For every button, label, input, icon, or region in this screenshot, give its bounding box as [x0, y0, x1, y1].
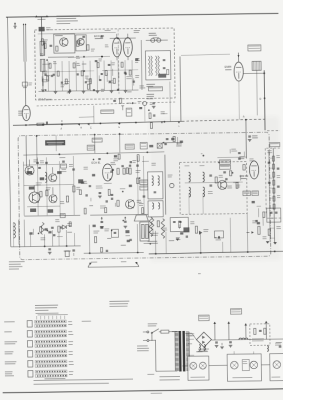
svg-text:E: E	[118, 127, 120, 129]
capacitor C31	[113, 99, 116, 101]
wire transformer top tap	[172, 330, 179, 332]
label box ebf4	[252, 191, 259, 196]
text B250 rectifier	[198, 349, 209, 350]
coil L33	[203, 187, 205, 197]
wire drop 8	[246, 214, 249, 252]
resistor R208	[149, 113, 151, 119]
wire if mid rail	[58, 161, 61, 215]
resistor R175	[263, 212, 265, 218]
resistor R60	[215, 177, 217, 183]
value label text T60	[121, 244, 126, 247]
right column rungs	[269, 157, 273, 159]
resistor R116	[79, 190, 81, 195]
text 5n 2kV	[176, 142, 182, 145]
push button row Langwelle right digits	[69, 360, 74, 363]
wire cluster x138	[136, 156, 139, 214]
resistor R30 volume	[37, 123, 44, 125]
push button row Phono label	[4, 331, 11, 332]
wire drop 12	[222, 242, 224, 253]
transistor Q12	[49, 174, 57, 182]
push button row Automatic contact strip upper	[35, 320, 67, 323]
junction dot J21	[122, 191, 124, 193]
resistor R31	[119, 98, 121, 103]
wire bridge bottom stub	[203, 347, 205, 351]
tube lead stubs ECC85	[116, 34, 118, 38]
wire ebf rail	[217, 156, 246, 159]
svg-text:ECH 81: ECH 81	[91, 161, 101, 165]
component blob B115	[171, 138, 174, 140]
variable capacitor CV1	[151, 38, 155, 42]
capacitor C109	[129, 164, 131, 166]
ground fm column 4	[96, 90, 100, 92]
wire if row214	[24, 214, 80, 217]
push button row Kurzwelle contact strip upper	[35, 340, 67, 343]
output transformer box	[140, 222, 149, 241]
output transformer winding	[141, 224, 144, 238]
label box small	[126, 108, 132, 116]
op-amp U1 tube ECC85a	[112, 38, 121, 57]
push button row Phono switch square	[27, 331, 32, 338]
capacitor C163	[129, 238, 131, 240]
svg-text:FM-Tuner: FM-Tuner	[39, 97, 52, 101]
wire stub W68	[178, 224, 180, 229]
resistor R14	[81, 71, 83, 76]
capacitor C47	[143, 195, 146, 197]
capacitor C33 ground	[248, 135, 251, 137]
text band switch labels	[146, 84, 155, 85]
text cluster row200 a	[93, 230, 99, 233]
wire fm column 8	[96, 61, 98, 91]
capacitor C12	[69, 89, 71, 91]
wire stub W99	[42, 63, 50, 65]
table footnote line b	[34, 383, 109, 385]
text NTC	[150, 233, 158, 234]
wire cluster x144	[142, 156, 145, 214]
ground G5	[176, 238, 180, 240]
coil L1 lower section	[40, 59, 45, 71]
wire stub W34	[114, 203, 116, 207]
transformer primary winding	[175, 331, 178, 333]
resistor R80 zigzag	[41, 222, 45, 234]
wire stub W39	[229, 149, 231, 153]
resistor R223	[44, 43, 46, 48]
text values ebf	[231, 148, 236, 151]
push button row Automatic right digits	[68, 320, 72, 323]
wire stub W117	[41, 76, 43, 81]
antenna down lead	[24, 62, 27, 106]
op-amp U2 tube ECC85b	[123, 38, 132, 57]
capacitor C15	[93, 89, 95, 91]
junction dot J107	[148, 109, 150, 111]
resistor R220	[41, 39, 43, 45]
wire heater top link	[197, 351, 208, 353]
trimmer circle cluster	[143, 101, 147, 105]
resistor R10	[49, 63, 51, 68]
tube heater H2	[199, 362, 206, 369]
wire drop 4	[88, 225, 90, 253]
label box right edge	[270, 143, 280, 147]
ground G7	[266, 241, 270, 243]
wire stub W76	[257, 208, 259, 217]
node D	[264, 97, 266, 99]
component blob B62	[127, 240, 130, 242]
wire stub W88	[112, 69, 114, 76]
tube heater H1	[190, 362, 197, 369]
choke L50	[239, 338, 248, 340]
svg-text:C: C	[90, 127, 92, 129]
wire transformer secondary taps	[189, 338, 194, 340]
node fm1	[83, 56, 85, 58]
push button header ticks	[36, 316, 38, 319]
wire stub W28	[90, 198, 92, 202]
label box ebf1	[219, 160, 230, 165]
ground fm column 1	[54, 91, 58, 93]
label box UKW	[148, 87, 162, 91]
value label text T100	[43, 70, 47, 73]
dark blobs antenna coil top	[39, 27, 45, 32]
capacitor C83	[72, 249, 75, 251]
switch S2 on antenna line	[22, 82, 27, 86]
fuse F1	[161, 330, 169, 333]
dashed box right bottom edge	[267, 217, 281, 219]
wire mains left down	[154, 340, 156, 371]
wire fm column 7	[89, 61, 91, 91]
arrow AM switch	[132, 102, 134, 104]
ground G6	[273, 242, 277, 244]
wire drop 10	[58, 232, 60, 246]
capacitor C91	[229, 341, 232, 343]
capacitor C16	[101, 73, 103, 75]
resistor R70	[230, 171, 232, 176]
wire fm tie y56	[68, 55, 110, 58]
capacitor C45	[72, 168, 75, 170]
text antenna connection note2	[57, 23, 71, 24]
electrolytic box 50u	[170, 217, 188, 231]
NTC zigzag R90	[149, 217, 153, 237]
wire rail D horizontal dashes	[267, 130, 280, 132]
wire stub W119	[42, 79, 44, 86]
capacitor C70	[223, 171, 226, 173]
transistor Q11	[29, 192, 40, 203]
transistor Q10	[25, 166, 34, 175]
capacitor C13	[77, 73, 79, 75]
push button row Ein-Aus UKW label	[5, 371, 13, 372]
dashed vertical right	[264, 148, 267, 213]
transistor Q14	[125, 200, 134, 209]
push button row Ein-Aus UKW switch square	[28, 371, 33, 378]
junction dot J54	[47, 230, 49, 232]
wire x165 vertical	[164, 155, 167, 215]
main bus line	[13, 121, 182, 125]
wire fm column 1	[47, 61, 49, 91]
label box dc2	[231, 309, 242, 315]
push button row Mittelwelle label	[5, 351, 14, 352]
value label text T122	[43, 38, 47, 41]
antenna input coil L1	[40, 41, 45, 55]
capacitor C21 with ground	[152, 102, 155, 104]
node B2	[202, 155, 204, 157]
capacitor C123	[111, 197, 113, 199]
text Drucktastenaggregat title	[35, 305, 58, 306]
push button row Kurzwelle contact strip lower	[35, 344, 67, 347]
push button row Langwelle contact strip lower	[35, 364, 67, 367]
dc arrow 1	[214, 322, 216, 340]
component blob B26	[129, 185, 132, 187]
wire stub W78	[262, 217, 264, 226]
capacitor C108	[89, 185, 91, 187]
page bottom edge line	[3, 389, 286, 393]
NTC resistor network	[151, 219, 154, 229]
wire y254 rail	[149, 251, 284, 254]
resistor R13	[73, 63, 75, 68]
capacitor C90	[215, 341, 218, 343]
transistor Q20	[218, 180, 227, 189]
wire if top rail	[23, 152, 164, 155]
capacitor C8	[108, 63, 111, 65]
wire drop 2	[51, 230, 53, 246]
ground fm column 6	[124, 90, 128, 92]
svg-text:EBF 89: EBF 89	[240, 175, 249, 178]
ground heater	[220, 346, 224, 348]
wire mains bottom	[156, 370, 177, 372]
wire right column second	[269, 150, 270, 242]
wire drop 9	[29, 235, 31, 247]
resistor R140	[236, 182, 238, 188]
junction dot J58	[122, 220, 124, 222]
junction dot J106	[45, 89, 47, 91]
wire rail x266 upper	[263, 70, 266, 130]
wire from hatched box down	[256, 70, 259, 115]
potentiometer arrow	[61, 124, 63, 126]
FM tuner dashed enclosure	[35, 28, 175, 100]
heater box1 label	[190, 377, 205, 378]
push button header digits	[36, 313, 59, 314]
capacitor C80	[51, 226, 54, 228]
value label text T72	[169, 239, 174, 242]
text ferrite label	[149, 33, 156, 34]
value label text T2	[110, 161, 115, 164]
value label text T42	[227, 185, 232, 188]
tube EL84 base	[134, 215, 148, 221]
push button row Automatic label	[4, 321, 15, 322]
junction dot J56	[38, 233, 40, 235]
text bottom left note	[9, 261, 25, 262]
resistor R41	[40, 191, 42, 197]
component blob B64	[100, 226, 103, 228]
resistor R15	[89, 79, 91, 84]
capacitor C52	[111, 193, 114, 195]
capacitor C40	[38, 166, 41, 168]
transformer core bar left	[179, 331, 182, 372]
coil L10	[148, 56, 150, 76]
wire stub W29	[142, 160, 149, 162]
label box AM abgeschaltet	[101, 110, 114, 114]
resistor R12	[65, 79, 67, 84]
label 9-601	[147, 373, 154, 376]
wire EM84 down	[238, 82, 241, 120]
node if rail 1	[58, 153, 60, 155]
wire fm column 10	[110, 60, 112, 90]
coil T1a	[152, 176, 154, 186]
wire zf drop x37	[36, 135, 38, 161]
capacitor C43	[62, 160, 65, 162]
junction dots fm	[83, 70, 85, 72]
dipole antenna	[40, 17, 42, 41]
value label text T103	[127, 90, 131, 93]
junction dots bus	[25, 124, 27, 126]
schematic top border	[6, 13, 278, 17]
speaker coil L40	[13, 223, 15, 238]
capacitor C218	[44, 73, 46, 75]
resistor R177	[268, 229, 270, 235]
resistor R78 right column	[273, 204, 275, 209]
text NTC labels	[148, 241, 158, 242]
capacitor C81 ground	[48, 248, 51, 250]
text Gleichrichterplatte	[109, 301, 129, 302]
text ech81 values	[96, 185, 102, 188]
resistor R73 right column	[273, 164, 275, 169]
wire am to EM84	[181, 54, 230, 55]
capacitor C2	[50, 44, 53, 46]
capacitor C125	[112, 168, 114, 170]
capacitor C30	[45, 122, 47, 125]
tube heater H3	[230, 361, 238, 369]
wire stub W43	[243, 152, 245, 157]
value label text T17	[84, 180, 87, 183]
wire left cluster tie 183	[24, 184, 74, 185]
svg-text:B: B	[80, 127, 82, 129]
dc arrow 3	[245, 324, 247, 338]
cluster phones right	[214, 231, 223, 238]
capacitor C212	[153, 114, 155, 116]
text cluster x140	[132, 159, 136, 162]
resistor R42	[46, 190, 48, 196]
tube heater box 1	[188, 356, 209, 380]
capacitor C113	[130, 161, 132, 163]
wire if left rail	[22, 162, 25, 216]
value label text T5	[137, 199, 141, 202]
wire fm column 2	[54, 61, 56, 91]
capacitor C87	[270, 211, 273, 213]
capacitor C14	[85, 81, 87, 83]
label tube left	[18, 110, 23, 113]
wire y252 rail	[84, 251, 144, 254]
bus arrow at 163	[161, 122, 163, 124]
wire drop 1	[43, 234, 45, 246]
schematic left border	[8, 17, 11, 247]
dark label Q12b	[48, 209, 54, 213]
wire drop x230	[229, 218, 231, 252]
resistor R131	[126, 168, 128, 174]
ground fm column 5	[110, 90, 114, 92]
resistor R2	[56, 46, 58, 51]
value label text T15	[89, 204, 93, 207]
wire fm bottom rail	[38, 90, 138, 91]
resistor R106	[137, 155, 139, 161]
capacitor C75	[268, 181, 271, 183]
text values mid band	[33, 158, 37, 161]
wire drop 3	[65, 230, 67, 246]
push button row Kurzwelle switch square	[27, 341, 32, 348]
wire right column	[273, 148, 274, 242]
capacitor C51	[99, 192, 102, 194]
dark dots am box	[158, 74, 166, 78]
push button row Mittelwelle contact strip lower	[35, 354, 67, 357]
component blob B52	[29, 232, 32, 234]
capacitor C20	[163, 59, 166, 61]
small marks cluster 140	[139, 107, 142, 109]
push button row Mittelwelle switch square	[28, 351, 33, 358]
capacitor C124	[85, 194, 87, 196]
capacitor C86	[173, 221, 176, 223]
resistor R11	[57, 71, 59, 76]
component top right	[279, 345, 282, 347]
capacitor C170	[186, 235, 188, 237]
resistor R118	[118, 154, 120, 159]
bridge rectifier GR1	[196, 332, 211, 347]
wire left verticals	[23, 220, 25, 247]
resistor R119	[84, 208, 86, 214]
text fm top right	[134, 29, 140, 32]
text S-601 voltages	[159, 376, 180, 377]
wire ech81 bottom	[90, 213, 148, 216]
capacitor C132	[98, 158, 100, 160]
component blob B22	[92, 174, 95, 176]
component blob B53	[48, 231, 51, 233]
label TR40	[55, 35, 63, 36]
wire stub W83	[98, 75, 100, 79]
resistor R19	[121, 62, 123, 67]
coil L31	[189, 187, 191, 197]
wire stub W101	[133, 78, 135, 85]
antenna arrow to EM84	[237, 53, 239, 62]
component blob B46	[45, 228, 48, 230]
label box dc1	[199, 315, 210, 321]
wire left col x27	[25, 136, 27, 167]
node fm2	[101, 56, 103, 58]
capacitor C61	[170, 183, 174, 187]
resistor R40	[66, 196, 68, 202]
wire drop 7	[199, 233, 201, 253]
dashed section line y103	[37, 102, 176, 106]
resistor R51	[123, 168, 125, 174]
value label text T94	[61, 83, 65, 86]
resistor R50	[117, 168, 119, 174]
junction dot J61	[111, 230, 113, 232]
wire zf drop x57	[55, 135, 57, 151]
dc arrow 2	[228, 322, 230, 340]
capacitor C60	[154, 191, 157, 193]
wire y116 tie	[79, 116, 94, 119]
resistor R104	[108, 189, 110, 195]
transistor Q2	[77, 38, 84, 45]
wire stub W97	[106, 73, 108, 82]
resistor R127	[142, 208, 144, 214]
capacitor C179	[255, 219, 257, 221]
small box cluster	[111, 229, 118, 237]
wire transformer to bridge	[192, 333, 197, 340]
transistor box TR41	[76, 35, 87, 51]
capacitor C74	[268, 161, 271, 163]
value label text T105	[101, 88, 104, 91]
dark label Q11	[29, 186, 35, 189]
ZF-Platte dash-dot enclosure	[18, 132, 271, 259]
heater box2 inner detail	[242, 360, 249, 371]
bus node E	[119, 122, 121, 124]
bus node E2	[178, 122, 180, 124]
resistor R74 right column	[273, 172, 275, 177]
text values lower band	[41, 236, 46, 239]
